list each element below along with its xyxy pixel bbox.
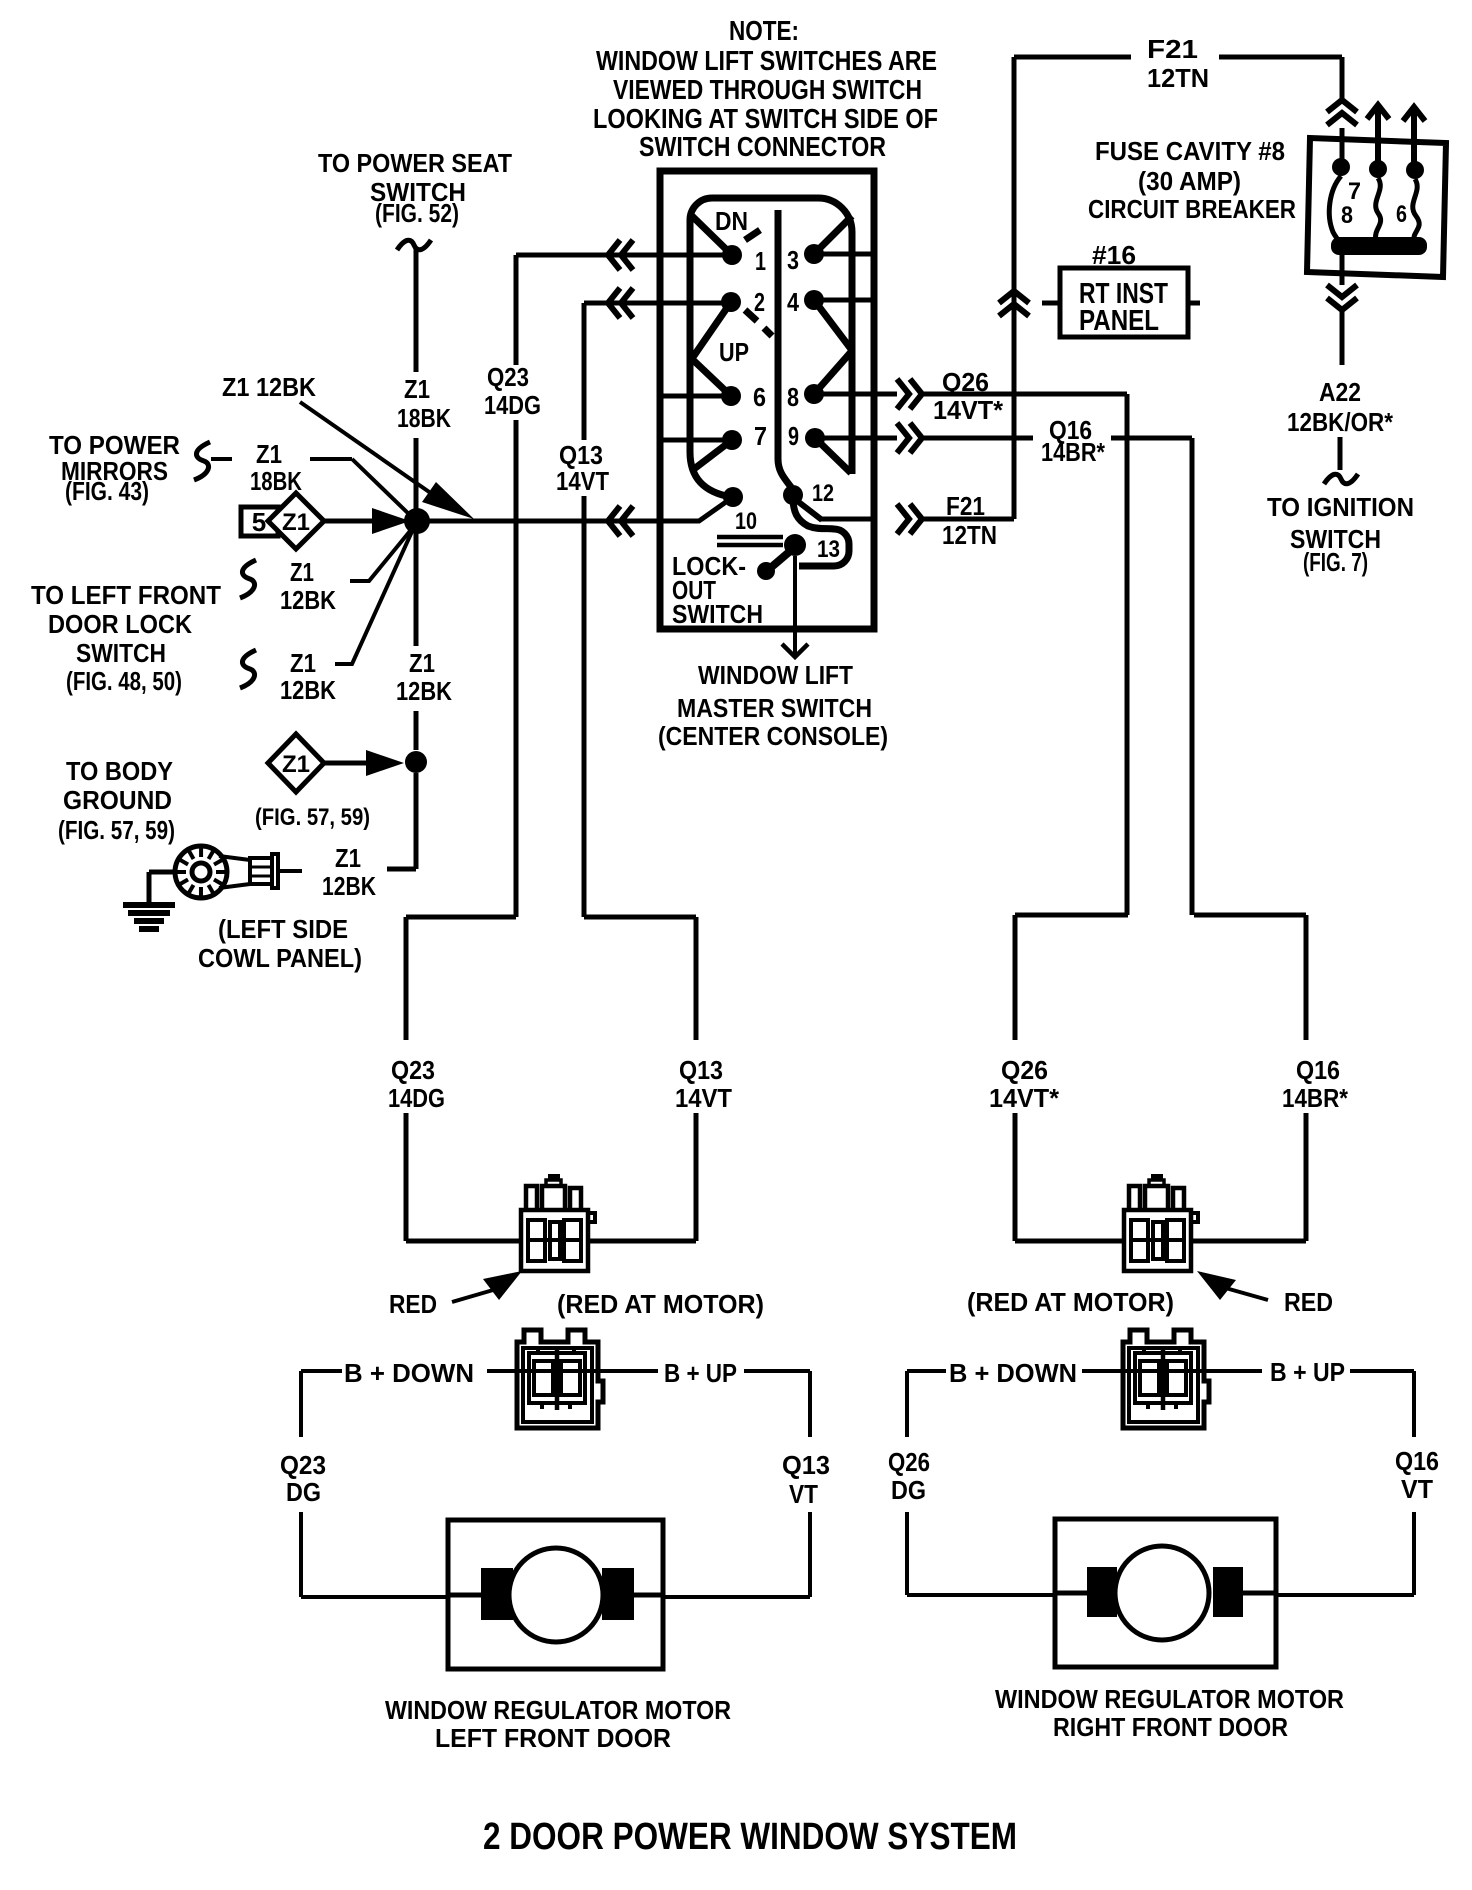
svg-text:8: 8 [1341, 202, 1353, 229]
breaker fuse element right [1413, 179, 1419, 241]
svg-text:14VT*: 14VT* [933, 395, 1004, 425]
svg-text:12BK: 12BK [322, 871, 376, 901]
wire Z1 18BK to power seat switch [414, 247, 419, 510]
wire F21 down to breaker [1340, 57, 1345, 100]
wire Z1 12BK callout leader [300, 402, 474, 519]
breaker pin 7 dot [1332, 158, 1361, 205]
pin 2 [721, 287, 765, 317]
svg-text:Z1: Z1 [256, 439, 282, 469]
svg-text:2 DOOR POWER WINDOW SYSTEM: 2 DOOR POWER WINDOW SYSTEM [483, 1816, 1017, 1858]
label TO POWER SEAT SWITCH (FIG. 52) [318, 148, 512, 228]
svg-text:SWITCH: SWITCH [76, 638, 166, 668]
svg-text:(FIG. 52): (FIG. 52) [375, 198, 459, 228]
switch contact dashes UP [745, 310, 772, 336]
svg-text:Q16: Q16 [1395, 1446, 1439, 1476]
connector chevron pin 1 [608, 240, 633, 270]
switch diagonal pin 8 [814, 352, 851, 394]
svg-text:14BR*: 14BR* [1041, 437, 1106, 467]
label DN [715, 206, 748, 236]
pin 6 [721, 382, 766, 412]
switch inner frame rounded [690, 198, 852, 497]
wire eyelet to earth ground [149, 872, 175, 905]
label Q26 14VT* [933, 367, 1004, 425]
wire A22 run [1340, 311, 1342, 470]
label Z1 12BK (vertical run) [396, 648, 452, 706]
svg-text:12BK: 12BK [280, 585, 336, 615]
connector chevron pin 10 [608, 506, 633, 536]
connector chevron pin 12 F21 [897, 504, 922, 534]
window regulator motor right front door [1055, 1519, 1276, 1667]
label Q23 DG [280, 1450, 326, 1507]
wire B+DOWN left [301, 1369, 517, 1373]
svg-text:TO LEFT FRONT: TO LEFT FRONT [31, 580, 221, 610]
wire diamond to ground node [324, 750, 404, 776]
wire F21 top run [1014, 55, 1342, 60]
label Q23 14DG (lower) [388, 1055, 445, 1113]
label Z1 18BK (power mirrors) [250, 439, 302, 496]
pin 1 [722, 245, 766, 276]
svg-text:F21: F21 [946, 491, 985, 521]
svg-text:9: 9 [788, 421, 799, 451]
connector chevron pin 2 [608, 288, 633, 318]
pin 4 [787, 287, 824, 317]
label Z1 12BK (door lock 2) [280, 648, 336, 705]
note text block [593, 15, 938, 162]
wire F21 chevron to corner [922, 517, 1014, 522]
svg-text:14VT*: 14VT* [989, 1083, 1060, 1113]
label Q16 VT [1395, 1446, 1439, 1504]
wire Q16 lower loop [1193, 915, 1306, 1241]
ground earth symbol [123, 905, 175, 929]
svg-text:Q23: Q23 [280, 1450, 326, 1480]
label Z1 18BK (power seat) [397, 374, 451, 433]
circuit breaker box [1307, 138, 1446, 277]
svg-text:13: 13 [817, 536, 840, 563]
wire Q13 lower loop [584, 917, 696, 1241]
svg-text:TO POWER SEAT: TO POWER SEAT [318, 148, 512, 178]
label Q26 14VT* (lower) [989, 1055, 1060, 1113]
breaker fuse element middle [1376, 178, 1381, 240]
wire node to switch box pin 10 [417, 519, 657, 524]
switch wire pin 12 loop around 13 [793, 497, 849, 566]
label F21 12TN (top) [1147, 34, 1209, 93]
wire Q16 pin 9 to corner [815, 436, 1192, 441]
svg-text:6: 6 [1396, 201, 1407, 228]
wire break squiggle door lock 1 [240, 560, 256, 598]
svg-text:SWITCH CONNECTOR: SWITCH CONNECTOR [639, 131, 886, 162]
svg-text:(30 AMP): (30 AMP) [1138, 166, 1241, 196]
svg-text:Z1: Z1 [404, 374, 430, 404]
label #16 [1092, 240, 1136, 270]
connector window lift switch (left door, red) [521, 1174, 595, 1271]
wire Q13 vertical run [582, 303, 587, 917]
wire F21 vertical up [1012, 57, 1017, 519]
svg-text:(FIG. 57, 59): (FIG. 57, 59) [58, 815, 175, 845]
label Q13 VT [782, 1450, 830, 1509]
switch diagonal pin 9 [815, 438, 851, 473]
svg-text:12: 12 [812, 480, 834, 507]
svg-text:(FIG. 57, 59): (FIG. 57, 59) [255, 804, 370, 831]
wire pin 7 to box edge [663, 438, 732, 443]
wire Q13 VT drop (left) [663, 1371, 810, 1597]
svg-text:12BK/OR*: 12BK/OR* [1287, 407, 1394, 437]
svg-text:COWL PANEL): COWL PANEL) [198, 943, 362, 973]
svg-text:8: 8 [787, 382, 799, 412]
label A22 12BK/OR* [1287, 377, 1394, 437]
svg-text:7: 7 [1348, 178, 1361, 205]
svg-text:WINDOW LIFT SWITCHES ARE: WINDOW LIFT SWITCHES ARE [596, 45, 937, 76]
connector chevron pin 9 [897, 423, 922, 453]
wire diamond Z1 to node Z1 [324, 508, 410, 534]
wire pin 1 to box edge [663, 253, 732, 258]
svg-text:(FIG. 7): (FIG. 7) [1303, 547, 1368, 577]
svg-text:(FIG. 43): (FIG. 43) [65, 476, 149, 506]
wire Z1 12BK node down to ground node [414, 533, 419, 750]
arrow to master switch label [782, 632, 808, 657]
svg-text:(FIG. 48, 50): (FIG. 48, 50) [66, 666, 182, 696]
label Q23 14DG (upper) [484, 362, 541, 420]
wire pin 4 to box edge [814, 298, 871, 303]
wire node to door lock 2 [335, 527, 414, 664]
wire B+UP left [598, 1369, 810, 1373]
label LOCK-OUT SWITCH [672, 551, 763, 629]
label Q16 14BR* (lower) [1282, 1055, 1349, 1113]
svg-text:Q13: Q13 [679, 1055, 723, 1085]
svg-text:14DG: 14DG [484, 390, 541, 420]
switch diagonal pin 1 [691, 215, 732, 255]
connector 5 Z1 diamond [241, 493, 324, 549]
wire RT INST PANEL right stub [1188, 301, 1200, 306]
label TO POWER MIRRORS (FIG. 43) [49, 430, 180, 506]
svg-text:5: 5 [252, 507, 266, 537]
svg-text:Q26: Q26 [888, 1447, 930, 1477]
wire Z1 18BK power mirrors to node [310, 459, 414, 519]
pin 7 [722, 421, 767, 451]
lockout switch contact [757, 562, 775, 580]
title 2 DOOR POWER WINDOW SYSTEM [483, 1816, 1017, 1858]
wire RT INST PANEL left stub [1042, 301, 1060, 306]
breaker pin 8 dot [1341, 160, 1387, 229]
svg-text:WINDOW REGULATOR MOTOR: WINDOW REGULATOR MOTOR [995, 1684, 1344, 1714]
label Z1 12BK (ground lug) [322, 843, 376, 901]
wire node to door lock 1 [350, 525, 415, 581]
wire Q16 vertical to lower [1190, 438, 1195, 915]
switch diagonal pin 4 [814, 300, 851, 349]
switch diagonal pin 6 [691, 358, 731, 396]
svg-text:14BR*: 14BR* [1282, 1083, 1349, 1113]
wire break squiggle power mirrors [194, 442, 210, 480]
svg-text:Q26: Q26 [1001, 1055, 1048, 1085]
svg-text:2: 2 [754, 287, 765, 317]
label Z1 12BK (door lock 1) [280, 557, 336, 615]
svg-text:NOTE:: NOTE: [729, 15, 799, 46]
connector chevron F21 inline [999, 291, 1029, 316]
svg-text:12TN: 12TN [1147, 63, 1209, 93]
svg-text:Z1: Z1 [290, 557, 314, 587]
svg-text:RED: RED [389, 1289, 437, 1319]
label Q13 14VT (upper) [556, 440, 609, 496]
svg-text:DG: DG [891, 1475, 926, 1505]
svg-text:6: 6 [753, 382, 766, 412]
arrow RED to connector (right) [1197, 1271, 1268, 1300]
label TO BODY GROUND (FIG. 57, 59) [58, 756, 175, 845]
RT INST PANEL box [1060, 268, 1188, 337]
svg-text:12BK: 12BK [280, 675, 336, 705]
label RED (left) [389, 1289, 437, 1319]
pin 13 [784, 534, 840, 563]
wire pin 12 to F21 exit [796, 500, 871, 520]
label WINDOW LIFT MASTER SWITCH (CENTER CONSOLE) [658, 660, 888, 751]
label TO IGNITION SWITCH (FIG. 7) [1267, 492, 1414, 577]
wire Q23 from pin 1 to down-run [516, 253, 657, 258]
connector chevron breaker output [1327, 285, 1357, 310]
svg-text:FUSE CAVITY #8: FUSE CAVITY #8 [1095, 136, 1285, 166]
breaker bus bar [1331, 237, 1427, 255]
svg-text:A22: A22 [1319, 377, 1361, 407]
wire pin 10 exit [660, 497, 733, 521]
svg-text:12TN: 12TN [942, 520, 997, 550]
pin 3 [787, 244, 824, 275]
label (RED AT MOTOR) (right) [967, 1287, 1174, 1317]
wire stub power mirrors [211, 457, 232, 461]
wire pin 3 to box edge [814, 252, 871, 257]
wire pin 6 to box edge [663, 394, 731, 399]
svg-text:Z1: Z1 [335, 843, 361, 873]
wire Q23 DG drop (left) [301, 1371, 448, 1597]
svg-text:RED: RED [1284, 1287, 1333, 1317]
wire pin 13 down to arrow [793, 556, 797, 632]
switch diagonal pin 2 [691, 302, 731, 360]
connector window regulator motor (left) [517, 1330, 603, 1428]
switch center divider [778, 210, 791, 487]
wire Q26 vertical to lower [1125, 394, 1130, 915]
svg-text:14VT: 14VT [556, 466, 609, 496]
wire Q16 VT drop (right) [1276, 1371, 1414, 1595]
svg-text:GROUND: GROUND [63, 785, 172, 815]
svg-text:12BK: 12BK [396, 676, 452, 706]
svg-text:B + DOWN: B + DOWN [949, 1358, 1077, 1388]
wire break squiggle power seat [397, 240, 431, 250]
connector Z1 diamond (body ground) [268, 734, 324, 792]
connector chevron breaker feed [1327, 100, 1357, 125]
svg-text:RIGHT FRONT DOOR: RIGHT FRONT DOOR [1053, 1712, 1288, 1742]
svg-text:WINDOW LIFT: WINDOW LIFT [698, 660, 853, 690]
ground eyelet terminal (left side cowl panel) [175, 846, 302, 898]
wire Q26 lower loop [1015, 915, 1128, 1241]
label WINDOW REGULATOR MOTOR RIGHT FRONT DOOR [995, 1684, 1344, 1742]
svg-text:DG: DG [286, 1477, 321, 1507]
svg-text:DN: DN [715, 206, 748, 236]
pin 12 [783, 480, 834, 507]
connector window regulator motor (right) [1123, 1330, 1209, 1428]
switch contact dash DN [745, 230, 760, 240]
svg-text:DOOR LOCK: DOOR LOCK [48, 609, 192, 639]
svg-text:UP: UP [719, 337, 749, 367]
wire breaker output [1340, 255, 1345, 285]
svg-text:10: 10 [735, 508, 757, 535]
svg-text:Q26: Q26 [942, 367, 989, 397]
label Q26 DG [888, 1447, 930, 1505]
svg-text:3: 3 [787, 245, 799, 275]
wire Q26 pin 8 to corner [814, 392, 1127, 397]
svg-text:WINDOW REGULATOR MOTOR: WINDOW REGULATOR MOTOR [385, 1695, 731, 1725]
svg-text:VT: VT [789, 1479, 818, 1509]
label FUSE CAVITY #8 (30 AMP) CIRCUIT BREAKER [1088, 136, 1296, 224]
svg-text:B + UP: B + UP [1270, 1357, 1345, 1387]
label B + DOWN (right) [949, 1358, 1077, 1388]
svg-text:TO BODY: TO BODY [66, 756, 173, 786]
label (LEFT SIDE COWL PANEL) [198, 914, 362, 973]
svg-text:Q13: Q13 [782, 1450, 830, 1480]
pin 9 [788, 421, 825, 451]
window regulator motor left front door [448, 1520, 663, 1669]
pin 8 [787, 382, 824, 412]
svg-text:VIEWED THROUGH SWITCH: VIEWED THROUGH SWITCH [613, 74, 922, 105]
label (FIG. 57, 59) under diamond [255, 804, 370, 831]
label Q13 14VT (lower) [675, 1055, 732, 1113]
wire pin 2 to box edge [663, 301, 731, 306]
svg-text:Q23: Q23 [391, 1055, 435, 1085]
svg-text:F21: F21 [1147, 34, 1198, 64]
svg-text:B + DOWN: B + DOWN [344, 1358, 474, 1388]
svg-text:Z1: Z1 [282, 751, 310, 778]
lockout switch dashed link [717, 537, 783, 545]
arrow RED to connector (left) [452, 1271, 522, 1302]
label B + UP (left) [664, 1358, 737, 1388]
label Z1 12BK callout [222, 372, 316, 402]
pin 10 [723, 487, 757, 535]
svg-text:SWITCH: SWITCH [672, 599, 763, 629]
wire ground node down hook [387, 773, 416, 869]
svg-text:CIRCUIT BREAKER: CIRCUIT BREAKER [1088, 194, 1296, 224]
lockout switch blade [768, 547, 795, 570]
svg-text:LOOKING AT SWITCH SIDE OF: LOOKING AT SWITCH SIDE OF [593, 103, 938, 134]
svg-text:Q23: Q23 [487, 362, 529, 392]
wire Q23 vertical run [514, 255, 519, 917]
label Q16 14BR* [1041, 415, 1106, 467]
svg-text:(RED AT MOTOR): (RED AT MOTOR) [557, 1289, 764, 1319]
svg-text:Z1 12BK: Z1 12BK [222, 372, 316, 402]
label F21 12TN (switch side) [942, 491, 997, 550]
wire break squiggle ignition [1324, 474, 1358, 484]
svg-text:LEFT FRONT DOOR: LEFT FRONT DOOR [435, 1723, 671, 1753]
svg-text:VT: VT [1401, 1474, 1433, 1504]
breaker fuse element left [1329, 176, 1341, 243]
wire Q23 lower loop [406, 917, 519, 1241]
connector window lift switch (right door, red) [1124, 1174, 1198, 1271]
switch diagonal pin 3 [814, 216, 852, 254]
svg-text:14VT: 14VT [675, 1083, 732, 1113]
label RED (right) [1284, 1287, 1333, 1317]
switch diagonal pin 7 [694, 440, 732, 469]
breaker pin 6 dot [1396, 161, 1424, 228]
svg-text:(LEFT SIDE: (LEFT SIDE [218, 914, 348, 944]
svg-text:7: 7 [754, 421, 767, 451]
svg-text:MASTER SWITCH: MASTER SWITCH [677, 693, 872, 723]
window lift master switch outer box [660, 171, 874, 629]
svg-text:4: 4 [787, 287, 799, 317]
svg-text:(RED AT MOTOR): (RED AT MOTOR) [967, 1287, 1174, 1317]
label WINDOW REGULATOR MOTOR LEFT FRONT DOOR [385, 1695, 731, 1753]
wire B+UP right [1204, 1369, 1414, 1373]
node body ground junction dot [405, 751, 427, 773]
svg-text:1: 1 [755, 246, 766, 276]
label UP [719, 337, 749, 367]
svg-text:Z1: Z1 [409, 648, 435, 678]
wire chevron to breaker box [1340, 128, 1345, 160]
svg-text:18BK: 18BK [397, 403, 451, 433]
label B + UP (right) [1270, 1357, 1345, 1387]
wire Q13 from pin 2 to down-run [584, 301, 657, 306]
svg-text:TO IGNITION: TO IGNITION [1267, 492, 1414, 522]
svg-text:Z1: Z1 [290, 648, 316, 678]
svg-text:(CENTER CONSOLE): (CENTER CONSOLE) [658, 721, 888, 751]
label (RED AT MOTOR) (left) [557, 1289, 764, 1319]
wire B+DOWN right [907, 1369, 1123, 1373]
svg-text:B + UP: B + UP [664, 1358, 737, 1388]
wire Q26 DG drop (right) [907, 1371, 1055, 1595]
svg-text:14DG: 14DG [388, 1083, 445, 1113]
svg-text:Z1: Z1 [282, 509, 310, 536]
node Z1 junction dot [404, 508, 430, 534]
svg-text:Q16: Q16 [1296, 1055, 1340, 1085]
connector chevron pin 8 [897, 379, 922, 409]
wire break squiggle door lock 2 [240, 650, 256, 688]
breaker up arrow middle [1367, 105, 1389, 162]
label B + DOWN (left) [344, 1358, 474, 1388]
svg-text:PANEL: PANEL [1079, 305, 1159, 337]
label TO LEFT FRONT DOOR LOCK SWITCH (FIG. 48, 50) [31, 580, 221, 696]
breaker up arrow right [1403, 107, 1425, 164]
